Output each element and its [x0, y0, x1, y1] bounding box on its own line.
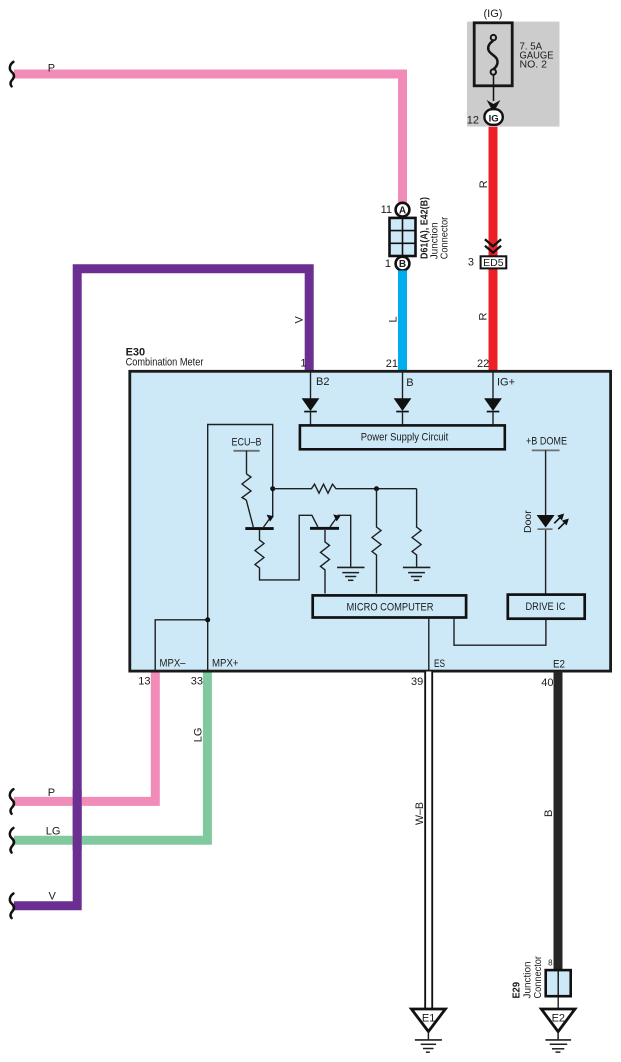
svg-text:B: B — [543, 810, 555, 817]
pin B2 diode input — [302, 372, 320, 425]
svg-text:1: 1 — [385, 258, 391, 270]
label MPX- — [160, 658, 187, 670]
svg-text:P: P — [48, 63, 55, 75]
wire drive ic to micro computer — [454, 619, 546, 645]
svg-text:ED5: ED5 — [483, 257, 504, 269]
junction connector E29 — [546, 970, 571, 996]
wire W-B (white with black outline) — [424, 672, 433, 1009]
svg-text:22: 22 — [477, 358, 489, 370]
pin 8 label — [548, 958, 553, 967]
label W-B rotated — [414, 802, 426, 825]
label V bottom — [49, 891, 57, 903]
label D61(A), E42(B) rotated — [418, 197, 430, 259]
svg-text:MICRO COMPUTER: MICRO COMPUTER — [347, 602, 434, 614]
break symbol LG — [10, 828, 14, 853]
pin 12 label — [467, 114, 479, 126]
pin 1 label (connector B) — [385, 258, 391, 270]
micro computer box — [313, 595, 466, 617]
svg-text:MPX+: MPX+ — [212, 658, 239, 670]
label Door rotated — [522, 510, 534, 533]
drive ic box — [508, 595, 585, 619]
svg-text:8: 8 — [548, 958, 553, 967]
label E29 Junction Connector rotated — [522, 956, 545, 999]
break symbol P bottom — [10, 789, 14, 814]
svg-text:+B DOME: +B DOME — [526, 436, 567, 448]
pin B diode input — [394, 372, 412, 425]
pin 40 number — [541, 677, 553, 689]
svg-text:Connector: Connector — [439, 216, 451, 259]
svg-text:ES: ES — [434, 658, 445, 670]
svg-text:V: V — [294, 316, 306, 324]
wire B (black) — [554, 672, 563, 970]
resistor R2 (Q1 base) — [255, 515, 318, 580]
shield chevrons on R wire — [485, 239, 501, 252]
label R lower rotated — [477, 313, 489, 321]
svg-text:A: A — [399, 205, 406, 216]
pin 39 number — [411, 676, 423, 688]
label E29 rotated — [511, 982, 523, 999]
label ES — [434, 658, 445, 670]
svg-text:(IG): (IG) — [484, 8, 503, 20]
pin IG+ diode input — [484, 372, 502, 425]
junction connector grid — [390, 218, 416, 256]
pin 21 number — [386, 358, 398, 370]
svg-text:LG: LG — [192, 728, 204, 743]
label V rotated near pin 1 — [294, 316, 306, 324]
label 7.5A GAUGE NO.2 — [520, 40, 554, 70]
label (IG) — [484, 8, 503, 20]
MPX+ ladder wire — [208, 425, 273, 671]
pin 13 number — [138, 676, 150, 688]
wire V (purple) — [14, 269, 309, 906]
junction connector circle B — [396, 257, 410, 271]
svg-text:Combination Meter: Combination Meter — [126, 356, 204, 368]
svg-text:L: L — [388, 316, 400, 322]
svg-text:E2: E2 — [552, 1013, 565, 1025]
label E30 — [126, 347, 146, 359]
svg-text:NO. 2: NO. 2 — [520, 59, 548, 71]
node junction MPX — [205, 617, 210, 622]
wire LG (green) — [14, 672, 208, 841]
wire P (bottom, pink) — [14, 672, 155, 802]
svg-text:12: 12 — [467, 114, 479, 126]
label IG+ — [497, 377, 515, 389]
resistor R6 — [412, 489, 421, 567]
svg-text:E1: E1 — [422, 1013, 435, 1025]
label B rotated — [543, 810, 555, 817]
transistor Q1 — [245, 500, 273, 530]
ground G1 — [337, 567, 364, 580]
wire P (top, pink) — [14, 74, 403, 203]
pin 33 number — [191, 676, 203, 688]
break symbol P top — [10, 62, 14, 87]
ground E2 — [541, 1009, 575, 1052]
resistor R1 (ECU-B) — [242, 474, 251, 500]
label E2 pin — [553, 659, 565, 671]
pin 3 label — [468, 257, 474, 269]
wire L (light blue) — [398, 271, 407, 373]
ground E1 — [411, 1009, 445, 1052]
pin 12 IG oval — [484, 109, 502, 125]
wire N1 to N2 with resistor R3 — [273, 484, 417, 493]
svg-text:IG+: IG+ — [497, 377, 515, 389]
label +B DOME — [526, 436, 567, 448]
ECU-B label and rail — [232, 437, 262, 474]
label LG bottom — [46, 825, 61, 837]
label P bottom — [48, 787, 55, 799]
pin 1 number — [300, 357, 306, 369]
arrow into pin 12 — [487, 100, 501, 113]
label P top — [48, 63, 55, 75]
svg-text:33: 33 — [191, 676, 203, 688]
svg-text:3: 3 — [468, 257, 474, 269]
svg-text:P: P — [48, 787, 55, 799]
svg-text:V: V — [49, 891, 57, 903]
redraw purple over crossings — [73, 790, 82, 850]
svg-text:39: 39 — [411, 676, 423, 688]
wire R (red) — [489, 127, 498, 372]
svg-text:LG: LG — [46, 825, 61, 837]
label B2 — [316, 376, 329, 388]
svg-text:ECU–B: ECU–B — [232, 437, 262, 449]
svg-text:R: R — [478, 180, 490, 188]
svg-text:E2: E2 — [553, 659, 565, 671]
svg-text:1: 1 — [300, 357, 306, 369]
transistor Q2 — [310, 514, 351, 566]
svg-text:Door: Door — [522, 510, 534, 533]
label B — [406, 377, 413, 389]
junction connector D61(A),E42(B) — [396, 203, 410, 217]
resistor R5 — [372, 489, 381, 594]
combination meter box E30 — [130, 371, 611, 671]
label LG rotated — [192, 728, 204, 743]
wire E29 to ground — [557, 998, 559, 1010]
connector 3 ED5 — [481, 256, 507, 269]
pin 22 number — [477, 358, 489, 370]
svg-text:13: 13 — [138, 676, 150, 688]
svg-text:B: B — [399, 259, 406, 270]
svg-text:MPX–: MPX– — [160, 658, 187, 670]
svg-text:W–B: W–B — [414, 802, 426, 825]
svg-text:40: 40 — [541, 677, 553, 689]
wire fuse to pin 12 — [493, 75, 495, 101]
label MPX+ — [212, 658, 239, 670]
power supply circuit box — [300, 425, 505, 449]
svg-text:Connector: Connector — [532, 956, 544, 999]
svg-text:DRIVE IC: DRIVE IC — [526, 601, 566, 613]
svg-text:11: 11 — [381, 204, 392, 216]
label R upper rotated — [478, 180, 490, 188]
resistor R4 (Q2 base) — [321, 530, 330, 594]
svg-text:IG: IG — [489, 113, 499, 124]
break symbol V — [10, 894, 14, 919]
fuse 7.5A GAUGE NO.2 — [474, 23, 512, 86]
svg-text:21: 21 — [386, 358, 398, 370]
node N2 — [374, 486, 379, 491]
node N1 — [270, 486, 275, 491]
fuse block gray background — [467, 22, 560, 127]
svg-text:R: R — [477, 313, 489, 321]
LED Door — [537, 511, 572, 594]
svg-text:B2: B2 — [316, 376, 329, 388]
MPX- wire — [155, 620, 208, 671]
label Combination Meter — [126, 356, 204, 368]
label Junction Connector rotated — [429, 216, 451, 259]
svg-text:B: B — [406, 377, 413, 389]
label L rotated — [388, 316, 400, 322]
ground G2 — [403, 567, 430, 580]
svg-text:Power Supply Circuit: Power Supply Circuit — [361, 432, 449, 444]
pin 11 label — [381, 204, 392, 216]
+B DOME rail — [532, 450, 560, 515]
wire ES from micro computer — [428, 619, 430, 671]
